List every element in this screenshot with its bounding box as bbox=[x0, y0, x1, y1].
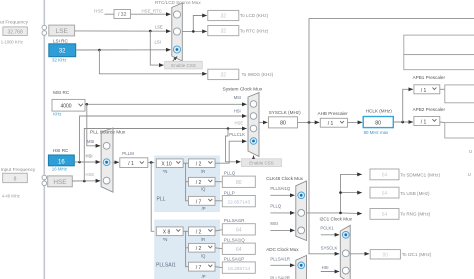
svg-text:LSI: LSI bbox=[155, 40, 161, 45]
svg-text:To SDMMC1 (MHz): To SDMMC1 (MHz) bbox=[400, 172, 440, 177]
svg-text:/ 2: / 2 bbox=[196, 180, 202, 186]
svg-text:32.768: 32.768 bbox=[7, 30, 23, 36]
svg-text:HSI: HSI bbox=[322, 265, 329, 270]
wire SYSCLK rail down to I2C1 mux bbox=[309, 122, 339, 253]
wire HSI to PLL source mux bbox=[74, 161, 100, 164]
svg-text:80: 80 bbox=[280, 121, 286, 127]
svg-text:MSI: MSI bbox=[270, 221, 277, 226]
PLLSAI1 block panel bbox=[154, 220, 220, 279]
svg-text:64: 64 bbox=[382, 191, 388, 197]
svg-text:80: 80 bbox=[383, 253, 389, 259]
svg-text:80 MHz max: 80 MHz max bbox=[364, 130, 389, 135]
svg-text:22.857143: 22.857143 bbox=[227, 199, 250, 205]
svg-text:/ 7: / 7 bbox=[196, 199, 202, 205]
APB1 clocks box (cut) bbox=[445, 85, 474, 103]
svg-text:APB1 Prescaler: APB1 Prescaler bbox=[413, 75, 446, 80]
svg-text:PLLM: PLLM bbox=[122, 151, 134, 156]
wire PLLSAI1Q out bbox=[215, 247, 222, 250]
PLLSAI1 /P divider /7 bbox=[189, 262, 216, 271]
svg-text:/Q: /Q bbox=[201, 187, 206, 192]
svg-text:PLL Source Mux: PLL Source Mux bbox=[90, 129, 126, 135]
svg-text:16 MHz: 16 MHz bbox=[52, 167, 67, 172]
svg-text:80: 80 bbox=[236, 180, 242, 186]
svg-text:To RNG (MHz): To RNG (MHz) bbox=[400, 212, 431, 217]
APB2 prescaler dropdown /1 bbox=[414, 117, 440, 126]
ADC clock mux body (cut at bottom) bbox=[296, 255, 307, 279]
LSI RC box 32 bbox=[49, 44, 76, 57]
wire MSI to system clock mux bbox=[85, 103, 247, 106]
svg-text:KHz: KHz bbox=[53, 112, 61, 117]
wire clk48 mux output rail bbox=[307, 174, 362, 214]
PLLSAI1 /R divider /2 bbox=[189, 227, 216, 236]
wire PLLSAI1 feed rail to Q and P bbox=[186, 231, 189, 266]
wire HSI to i2c1 mux bbox=[321, 271, 339, 273]
svg-text:APB2 Prescaler: APB2 Prescaler bbox=[413, 107, 446, 112]
svg-text:To LCD (KHz): To LCD (KHz) bbox=[240, 13, 269, 18]
arrow Enable CSS to mux bbox=[173, 57, 177, 61]
PLL /P divider /7 bbox=[189, 196, 216, 205]
svg-text:Enable CSS: Enable CSS bbox=[249, 161, 274, 166]
svg-text:HSE: HSE bbox=[53, 179, 66, 186]
svg-text:PLLSAI1Q: PLLSAI1Q bbox=[270, 186, 291, 191]
svg-text:PLLSAI1R: PLLSAI1R bbox=[224, 218, 245, 223]
wire HCLK to APB prescalers bbox=[393, 89, 413, 123]
HSI RC box 16 bbox=[48, 155, 74, 166]
svg-text:ADC Clock Mux: ADC Clock Mux bbox=[266, 247, 299, 252]
svg-text:8: 8 bbox=[14, 177, 17, 183]
svg-text:HCLK (MHz): HCLK (MHz) bbox=[366, 109, 393, 114]
wire HSE to /32 divider bbox=[105, 13, 115, 15]
wire mux output to LCD/RTC bbox=[182, 16, 207, 33]
wire PLLM output junction bbox=[148, 161, 157, 164]
left input panel separator line bbox=[43, 0, 45, 279]
HCLK value box 80 (highlighted) bbox=[363, 117, 393, 128]
MSI RC dropdown 4000 bbox=[52, 99, 85, 111]
PLLM divider dropdown /1 bbox=[120, 158, 148, 168]
svg-text:SYSCLK (MHz): SYSCLK (MHz) bbox=[269, 110, 301, 115]
PLL /Q divider /2 bbox=[189, 177, 216, 186]
SYSCLK value box 80 bbox=[268, 117, 297, 128]
wire APB1 to output box bbox=[440, 88, 445, 90]
HCLK top distribution box 1 (cut) bbox=[404, 35, 474, 55]
svg-text:U: U bbox=[468, 172, 471, 177]
wire PLLM down to PLLSAI1 bbox=[151, 163, 156, 232]
svg-text:HSE: HSE bbox=[235, 121, 244, 126]
svg-text:/ 1: / 1 bbox=[328, 121, 334, 127]
svg-text:/ 1: / 1 bbox=[128, 161, 134, 167]
Enable CSS button (system) bbox=[242, 159, 282, 167]
svg-text:64: 64 bbox=[236, 228, 242, 234]
svg-text:SYSCLK: SYSCLK bbox=[321, 245, 338, 250]
wire PLL feed rail to Q and P bbox=[186, 163, 189, 201]
wire LSI to mux bbox=[76, 49, 171, 52]
svg-text:PLL: PLL bbox=[157, 197, 166, 203]
svg-text:/P: /P bbox=[202, 206, 206, 211]
wire PLLQ to clk48 mux bbox=[270, 212, 294, 214]
svg-text:U: U bbox=[469, 149, 472, 154]
svg-text:PLLSAI1R: PLLSAI1R bbox=[270, 256, 290, 261]
svg-text:80: 80 bbox=[375, 120, 381, 126]
To USB value box bbox=[370, 187, 399, 198]
svg-text:PLLSAI1P: PLLSAI1P bbox=[224, 257, 244, 262]
wire AHB to HCLK box bbox=[348, 121, 363, 123]
LSE oscillator box bbox=[49, 25, 75, 36]
svg-text:32: 32 bbox=[221, 14, 227, 20]
svg-text:MSI RC: MSI RC bbox=[53, 90, 70, 95]
wire X8 to /R bbox=[183, 230, 188, 232]
svg-text:1-1000 KHz: 1-1000 KHz bbox=[1, 39, 23, 44]
svg-text:/ 2: / 2 bbox=[196, 230, 202, 236]
svg-text:LSE: LSE bbox=[56, 28, 68, 35]
wire PLLSAI1R to adc mux bbox=[270, 264, 294, 266]
svg-text:I2C1 Clock Mux: I2C1 Clock Mux bbox=[320, 217, 353, 222]
svg-text:PLLP: PLLP bbox=[224, 190, 235, 195]
svg-text:4-48 MHz: 4-48 MHz bbox=[2, 193, 20, 198]
svg-text:PLLCLK: PLLCLK bbox=[229, 132, 245, 137]
svg-text:/R: /R bbox=[201, 237, 205, 242]
svg-text:LSE: LSE bbox=[155, 25, 163, 30]
svg-text:To USB (MHz): To USB (MHz) bbox=[400, 191, 430, 196]
svg-text:64: 64 bbox=[236, 247, 242, 253]
wire APB2 to output box bbox=[440, 121, 445, 124]
svg-text:/P: /P bbox=[202, 274, 206, 279]
svg-text:X 10: X 10 bbox=[161, 162, 172, 168]
APB1 prescaler dropdown /1 bbox=[414, 85, 440, 94]
wire MSI to clk48 mux bbox=[270, 229, 294, 231]
PLLSAI1 /Q divider /2 bbox=[189, 243, 216, 252]
svg-text:/ 7: / 7 bbox=[196, 265, 202, 271]
svg-text:64: 64 bbox=[382, 212, 388, 218]
wire HSI rail up to system clock mux bbox=[80, 116, 247, 162]
svg-text:System Clock Mux: System Clock Mux bbox=[223, 87, 263, 93]
chain link circles LSE bbox=[42, 25, 47, 35]
svg-text:32 KHz: 32 KHz bbox=[52, 58, 66, 63]
HSE oscillator box bbox=[48, 176, 73, 187]
HSE input frequency box 8 bbox=[3, 173, 28, 183]
svg-text:PLLSAI1: PLLSAI1 bbox=[156, 263, 176, 269]
PLLSAI1 *N multiplier X8 bbox=[156, 227, 183, 236]
svg-text:LSI RC: LSI RC bbox=[53, 39, 68, 44]
svg-text:PLLQ: PLLQ bbox=[270, 203, 281, 208]
PLLSAI1R value box 64 bbox=[222, 224, 255, 235]
svg-text:HSI: HSI bbox=[86, 153, 93, 158]
wire system mux to SYSCLK box bbox=[259, 121, 267, 123]
APB2 clocks box (cut) bbox=[445, 123, 474, 138]
svg-text:RTC/LCD Source Mux: RTC/LCD Source Mux bbox=[155, 0, 201, 5]
To LCD value box 32 bbox=[208, 10, 239, 20]
svg-text:MSI: MSI bbox=[87, 139, 94, 144]
svg-text:HSI: HSI bbox=[234, 108, 241, 113]
To RNG value box bbox=[370, 209, 399, 220]
svg-text:PCLK1: PCLK1 bbox=[320, 226, 334, 231]
svg-text:AHB Prescaler: AHB Prescaler bbox=[318, 111, 349, 116]
To RTC value box 32 bbox=[208, 26, 239, 36]
wire SYSCLK to AHB prescaler bbox=[298, 121, 320, 124]
wire LSE to mux bbox=[75, 30, 171, 33]
svg-text:64: 64 bbox=[382, 173, 388, 179]
wire HSE_RTC to mux bbox=[131, 13, 171, 15]
svg-text:32: 32 bbox=[59, 49, 66, 55]
PLLQ value box 80 bbox=[222, 176, 255, 187]
divider /32 box bbox=[114, 10, 131, 19]
To I2C1 value box 80 bbox=[370, 250, 400, 259]
To SDMMC1 value box bbox=[370, 169, 399, 180]
wire PLLP out bbox=[215, 200, 222, 202]
PLLSAI1Q value box 64 bbox=[222, 243, 255, 254]
I2C1 clock mux body bbox=[340, 225, 350, 279]
wire HSE to PLL source mux bbox=[72, 180, 100, 183]
svg-text:32: 32 bbox=[221, 73, 227, 79]
svg-text:HSI RC: HSI RC bbox=[53, 148, 69, 153]
PLL block panel bbox=[154, 156, 220, 213]
svg-text:18.285714: 18.285714 bbox=[227, 266, 250, 272]
svg-text:/R: /R bbox=[201, 169, 205, 174]
svg-text:To IWDG (KHz): To IWDG (KHz) bbox=[242, 72, 274, 77]
svg-text:4000: 4000 bbox=[60, 103, 71, 109]
svg-text:/Q: /Q bbox=[201, 253, 206, 258]
Enable CSS button (LSE) bbox=[165, 61, 203, 69]
wire SYSCLK rail up and along top bbox=[309, 19, 474, 123]
system clock mux body bbox=[248, 93, 259, 157]
svg-text:16: 16 bbox=[58, 159, 65, 165]
svg-text:/ 2: / 2 bbox=[196, 162, 202, 168]
PLLSAI1P value box 18.285714 bbox=[222, 262, 255, 273]
wire PLLSAI1Q to clk48 mux bbox=[270, 194, 294, 196]
svg-text:Input Frequency: Input Frequency bbox=[0, 20, 29, 26]
wire i2c1 mux output bbox=[350, 253, 369, 255]
CLK48 clock mux body bbox=[296, 181, 307, 241]
wire HSE to Enable CSS (system) bbox=[226, 127, 241, 162]
svg-text:PLLSAI1Q: PLLSAI1Q bbox=[224, 238, 245, 243]
svg-text:PLLQ: PLLQ bbox=[224, 171, 236, 176]
svg-text:CLK48 Clock Mux: CLK48 Clock Mux bbox=[266, 176, 303, 181]
svg-text:HSE: HSE bbox=[86, 172, 95, 177]
PLL source mux body bbox=[101, 128, 113, 192]
svg-text:/ 1: / 1 bbox=[421, 120, 427, 126]
wire PLL mux to PLLM bbox=[113, 161, 119, 163]
svg-text:/ 1: / 1 bbox=[421, 88, 427, 94]
LSE input frequency box 32.768 bbox=[3, 27, 27, 36]
svg-text:MSI: MSI bbox=[234, 95, 241, 100]
svg-text:/ 2: / 2 bbox=[196, 246, 202, 252]
RTC/LCD source mux body bbox=[172, 3, 183, 61]
PLLP value box 22.857143 bbox=[222, 196, 255, 207]
wire PLLSAI1P out bbox=[215, 266, 222, 269]
wire PLLCLK from /R to system mux bbox=[215, 141, 247, 163]
wire HSE rail up to system clock mux bbox=[84, 129, 246, 182]
To IWDG value box 32 bbox=[208, 69, 239, 79]
wire LSI to IWDG bbox=[99, 50, 206, 74]
wire PLLQ out bbox=[215, 181, 222, 183]
svg-text:To RTC (KHz): To RTC (KHz) bbox=[240, 28, 269, 33]
wire MSI down to PLL source mux bbox=[87, 104, 100, 146]
HCLK top distribution box 2 (cut) bbox=[404, 55, 474, 70]
arrow Enable CSS to system mux bbox=[253, 156, 255, 159]
svg-text:HSE_RTC: HSE_RTC bbox=[142, 9, 162, 14]
svg-text:HSE: HSE bbox=[94, 9, 103, 14]
svg-text:Input Frequency: Input Frequency bbox=[1, 167, 36, 173]
chain link circles HSE bbox=[42, 175, 47, 185]
svg-text:X 8: X 8 bbox=[163, 230, 171, 236]
wire X10 to /R bbox=[183, 162, 188, 164]
svg-text:To I2C1 (MHz): To I2C1 (MHz) bbox=[402, 252, 432, 257]
svg-text:PLLSAI2R: PLLSAI2R bbox=[270, 276, 290, 279]
svg-text:/ 32: / 32 bbox=[118, 12, 127, 18]
PLL *N multiplier X10 bbox=[156, 159, 183, 168]
wire PCLK1 to i2c1 mux bbox=[321, 234, 339, 236]
svg-text:Enable CSS: Enable CSS bbox=[171, 63, 196, 68]
AHB prescaler dropdown /1 bbox=[320, 118, 347, 127]
svg-text:*N: *N bbox=[163, 237, 168, 242]
svg-text:*N: *N bbox=[163, 169, 168, 174]
PLL /R divider /2 bbox=[189, 159, 216, 168]
wire LSE to Enable CSS bbox=[150, 31, 163, 65]
svg-text:32: 32 bbox=[221, 29, 227, 35]
wire PLLSAI1R out bbox=[215, 230, 222, 231]
